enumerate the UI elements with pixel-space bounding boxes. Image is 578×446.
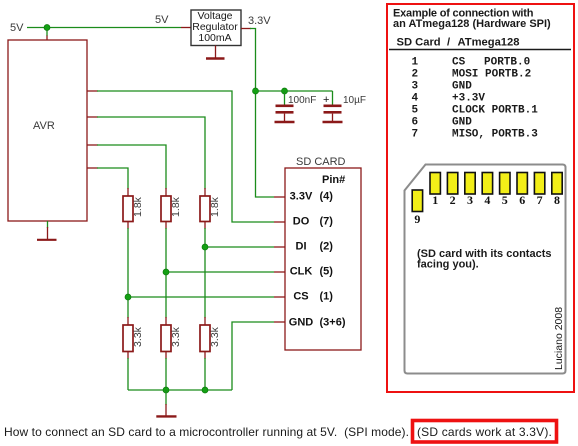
wire regulator output to 3.3V rail [250,29,256,92]
resistor R6 3.3k [200,325,210,352]
svg-text:5V: 5V [10,22,24,34]
svg-text:1.8k: 1.8k [132,196,144,217]
svg-text:1.8k: 1.8k [170,196,182,217]
ground regulator [215,46,217,58]
svg-text:GND: GND [452,117,472,129]
svg-text:MOSI PORTB.2: MOSI PORTB.2 [452,69,531,81]
svg-text:(4): (4) [320,191,334,203]
pin stub SD CLK [274,271,285,273]
SD card drawing outline [405,165,566,374]
svg-text:3: 3 [412,81,419,93]
svg-text:PORTB.0: PORTB.0 [484,57,530,69]
SD card contact 9 [412,190,422,212]
ground symbol main [165,390,167,405]
wire 3.3V rail horizontal to caps [256,90,333,92]
svg-text:3.3k: 3.3k [170,326,182,347]
svg-text:AVR: AVR [33,120,55,132]
svg-text:100nF: 100nF [288,95,316,106]
resistor R1 1.8k [123,196,133,222]
svg-text:(5): (5) [320,266,334,278]
wire R1 bottom through CS junction to R4 [127,222,129,230]
wire SD GND to rail [232,322,274,390]
svg-text:7: 7 [537,193,543,207]
pin stub SD 3.3V [274,196,285,198]
resistor R4 3.3k [123,325,133,352]
svg-text:DO: DO [293,216,310,228]
svg-text:9: 9 [414,212,420,226]
wire 5V rail horizontal [27,27,181,29]
svg-text:GND: GND [452,81,472,93]
wire AVR MISO to SD DO [97,91,274,222]
svg-text:7: 7 [412,129,419,141]
wire R3 bottom through DI junction to R6 [204,222,206,230]
wire CLK row [166,271,274,273]
svg-text:(7): (7) [320,216,334,228]
wire R2 bottom through CLK junction to R5 [165,222,167,230]
wire drop to C1 [284,91,286,105]
wire 3.3V rail down to SD pin [256,91,275,197]
junction CS [125,294,131,300]
wire CS row [128,296,274,298]
resistor R5 3.3k [161,325,171,352]
junction CLK [163,269,169,275]
SD card contact 8 [552,173,562,195]
svg-text:2: 2 [450,193,456,207]
svg-text:3.3k: 3.3k [132,326,144,347]
svg-text:6: 6 [412,117,419,129]
IC AVR box [8,40,87,221]
svg-text:Luciano 2008: Luciano 2008 [553,307,565,370]
SD card contact 2 [447,173,457,195]
ground C2 [323,121,343,124]
ground AVR [47,221,49,228]
pin stub regulator output [241,28,251,30]
pin stub regulator input [181,27,191,29]
svg-text:facing you).: facing you). [417,259,479,271]
wire AVR SCK to R2 [97,145,166,189]
svg-text:MISO, PORTB.3: MISO, PORTB.3 [452,129,538,141]
svg-text:10µF: 10µF [343,95,366,106]
voltage regulator U2 box [191,10,241,46]
svg-text:8: 8 [554,193,560,207]
svg-text:an ATmega128 (Hardware SPI): an ATmega128 (Hardware SPI) [393,18,551,30]
ground C1 [275,121,295,124]
svg-text:(1): (1) [320,291,334,303]
SD card contact 4 [482,173,492,195]
junction gnd rail B [202,387,208,393]
pin stub SD CS [274,296,285,298]
pin stub AVR SS [87,167,98,169]
wire R6 bottom to gnd rail [204,352,206,360]
pin stub SD GND [274,321,285,323]
svg-text:3.3V: 3.3V [290,191,313,203]
wire 5V drop to AVR [46,28,48,37]
SD card contact 1 [430,173,440,195]
wire R5 bottom to gnd rail [165,352,167,360]
subtitle underline [389,49,571,51]
resistor R2 1.8k [161,196,171,222]
svg-text:How to connect an SD card to a: How to connect an SD card to a microcont… [4,425,409,439]
pin stub SD DI [274,246,285,248]
svg-text:Pin#: Pin# [322,174,345,186]
SD card contact 6 [517,173,527,195]
pin stub AVR MOSI [87,116,98,118]
svg-text:(SD cards work at 3.3V).: (SD cards work at 3.3V). [417,425,552,439]
svg-text:(2): (2) [320,241,334,253]
svg-text:100mA: 100mA [198,32,231,44]
resistor R3 1.8k [200,196,210,222]
svg-text:CLK: CLK [290,266,313,278]
svg-text:(3+6): (3+6) [320,317,346,329]
pin stub AVR MISO [87,90,98,92]
svg-text:1: 1 [412,57,419,69]
svg-text:3.3V: 3.3V [248,15,271,27]
svg-text:4: 4 [412,93,419,105]
svg-text:GND: GND [289,317,314,329]
wire drop to C2 [332,91,334,105]
junction gnd rail A [163,387,169,393]
SD card contact 7 [534,173,544,195]
svg-text:SD CARD: SD CARD [296,156,346,168]
svg-text:ATmega128: ATmega128 [458,37,520,49]
pin stub AVR SCK [87,144,98,146]
wire R4 bottom to gnd rail [127,352,129,360]
SD card contact 5 [500,173,510,195]
svg-text:CLOCK PORTB.1: CLOCK PORTB.1 [452,105,538,117]
svg-text:DI: DI [296,241,307,253]
red highlight box [413,421,557,443]
junction 3.3V rail B [282,88,288,94]
junction DI [202,244,208,250]
svg-text:+3.3V: +3.3V [452,93,485,105]
svg-text:4: 4 [484,193,490,207]
wire ground rail [128,389,232,391]
junction 3.3V rail A [253,88,259,94]
red info panel [387,4,574,392]
wire AVR MOSI to R3 [97,117,205,189]
svg-text:3: 3 [467,193,473,207]
svg-text:CS: CS [293,291,308,303]
pin stub SD DO [274,221,285,223]
svg-text:3.3k: 3.3k [209,326,221,347]
svg-text:+: + [323,94,329,106]
svg-text:5V: 5V [155,14,169,26]
svg-text:5: 5 [502,193,508,207]
svg-text:CS: CS [452,57,466,69]
wire DI row [205,246,274,248]
svg-text:2: 2 [412,69,419,81]
svg-text:/: / [447,37,450,49]
pin stub AVR VCC [46,36,48,41]
SD card contact 3 [465,173,475,195]
svg-text:6: 6 [519,193,525,207]
svg-text:SD Card: SD Card [397,37,441,49]
svg-text:1: 1 [432,193,438,207]
wire AVR SS to R1 [97,168,128,189]
svg-text:1.8k: 1.8k [209,196,221,217]
junction 5V [44,25,50,31]
svg-text:5: 5 [412,105,419,117]
